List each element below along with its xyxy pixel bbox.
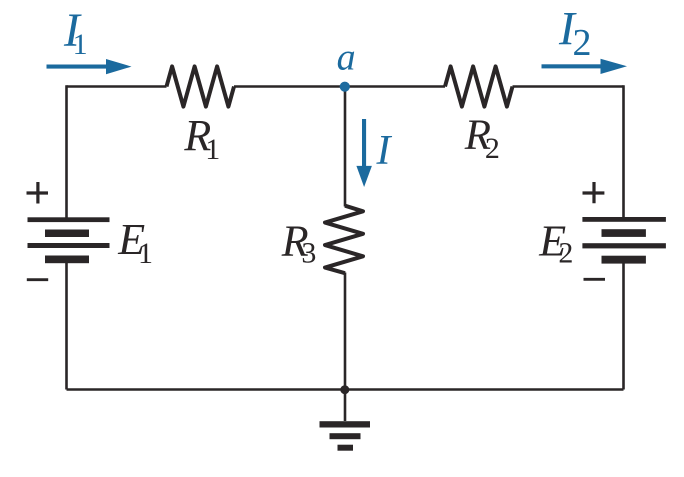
svg-text:a: a bbox=[337, 37, 356, 79]
svg-text:1: 1 bbox=[205, 133, 220, 166]
svg-text:1: 1 bbox=[138, 237, 153, 270]
svg-text:2: 2 bbox=[558, 237, 573, 270]
svg-text:2: 2 bbox=[485, 132, 500, 165]
svg-text:1: 1 bbox=[73, 28, 88, 61]
svg-text:I: I bbox=[376, 128, 393, 174]
svg-text:3: 3 bbox=[301, 237, 316, 270]
svg-text:2: 2 bbox=[573, 22, 592, 64]
